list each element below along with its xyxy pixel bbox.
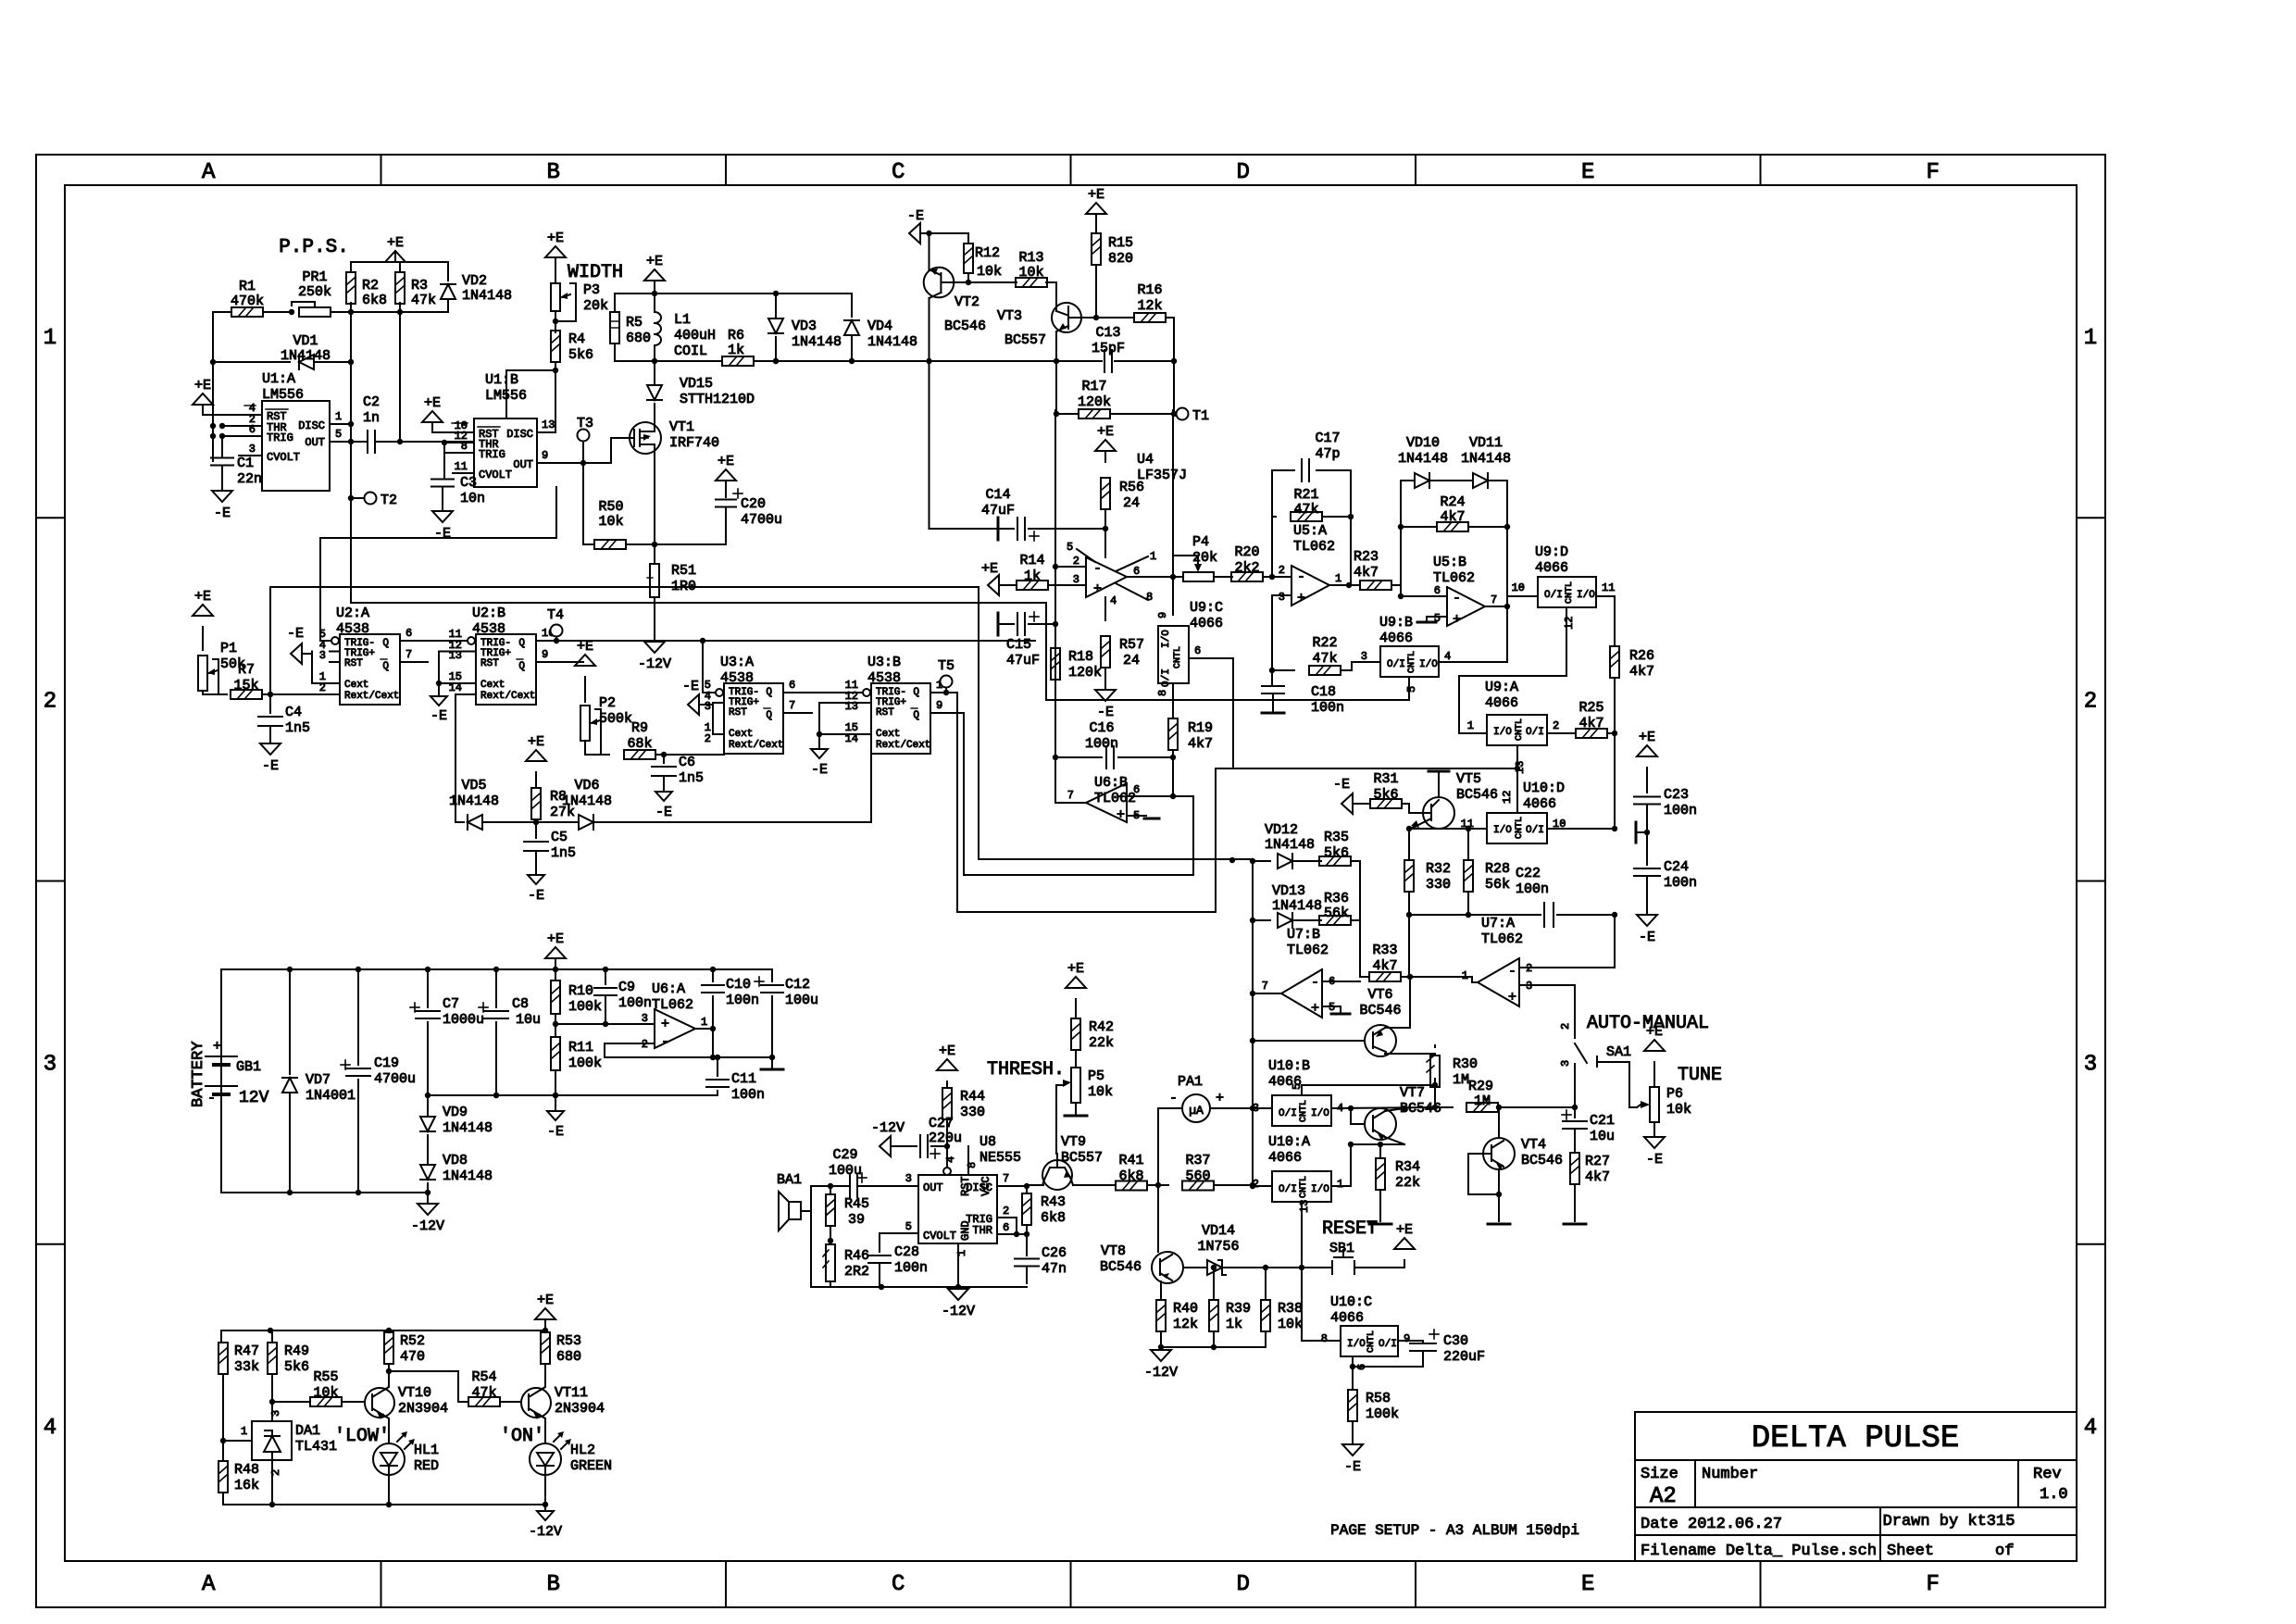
svg-text:22k: 22k bbox=[1395, 1175, 1420, 1191]
svg-text:10k: 10k bbox=[1088, 1084, 1113, 1100]
svg-text:VT4: VT4 bbox=[1521, 1137, 1546, 1153]
svg-text:R19: R19 bbox=[1188, 720, 1213, 736]
svg-text:R47: R47 bbox=[234, 1343, 259, 1359]
svg-text:VD4: VD4 bbox=[867, 319, 892, 334]
svg-text:4: 4 bbox=[44, 1416, 56, 1441]
svg-text:4066: 4066 bbox=[1523, 796, 1556, 812]
svg-text:DISC: DISC bbox=[506, 428, 533, 441]
svg-text:U1:A: U1:A bbox=[262, 371, 295, 387]
svg-text:7: 7 bbox=[1491, 593, 1497, 606]
svg-text:-E: -E bbox=[682, 679, 699, 694]
svg-text:R44: R44 bbox=[960, 1089, 985, 1105]
svg-text:R10: R10 bbox=[568, 983, 593, 999]
svg-text:1: 1 bbox=[241, 1425, 247, 1438]
svg-text:TL062: TL062 bbox=[652, 997, 693, 1013]
svg-text:4k7: 4k7 bbox=[1629, 664, 1654, 680]
svg-text:1N756: 1N756 bbox=[1197, 1239, 1239, 1255]
svg-text:RST: RST bbox=[480, 658, 499, 669]
svg-text:5k6: 5k6 bbox=[1324, 845, 1349, 861]
svg-text:U5:A: U5:A bbox=[1293, 523, 1327, 539]
svg-text:1: 1 bbox=[1467, 719, 1474, 732]
svg-text:VT1: VT1 bbox=[669, 419, 694, 435]
svg-text:2: 2 bbox=[2084, 689, 2097, 714]
svg-text:R37: R37 bbox=[1185, 1153, 1210, 1168]
svg-text:-12V: -12V bbox=[1144, 1365, 1178, 1380]
svg-text:C: C bbox=[892, 1572, 905, 1597]
svg-text:20k: 20k bbox=[583, 298, 608, 314]
svg-text:-12V: -12V bbox=[942, 1304, 975, 1319]
svg-text:R42: R42 bbox=[1089, 1019, 1114, 1035]
svg-text:1N4148: 1N4148 bbox=[867, 334, 917, 350]
svg-text:1k: 1k bbox=[1226, 1317, 1242, 1332]
svg-text:-: - bbox=[1453, 591, 1461, 606]
svg-text:+E: +E bbox=[1097, 424, 1114, 440]
svg-text:Sheet: Sheet bbox=[1887, 1543, 1934, 1560]
svg-text:68k: 68k bbox=[627, 736, 652, 752]
svg-text:120k: 120k bbox=[1068, 665, 1102, 681]
svg-text:R1: R1 bbox=[239, 279, 256, 294]
svg-text:15pF: 15pF bbox=[1092, 341, 1125, 356]
svg-text:I/O: I/O bbox=[1577, 590, 1595, 601]
svg-text:O/I: O/I bbox=[1379, 1339, 1397, 1350]
svg-text:1N4001: 1N4001 bbox=[306, 1088, 356, 1104]
svg-text:5k6: 5k6 bbox=[284, 1359, 309, 1375]
svg-text:BC546: BC546 bbox=[1100, 1259, 1142, 1275]
svg-text:VT9: VT9 bbox=[1061, 1134, 1086, 1150]
svg-text:I/O: I/O bbox=[1161, 630, 1172, 648]
svg-text:I/O: I/O bbox=[1493, 727, 1512, 738]
svg-text:2N3904: 2N3904 bbox=[398, 1401, 448, 1417]
svg-text:100u: 100u bbox=[829, 1163, 862, 1179]
svg-text:R48: R48 bbox=[234, 1462, 259, 1478]
svg-text:1n5: 1n5 bbox=[551, 845, 576, 861]
svg-text:U9:A: U9:A bbox=[1485, 680, 1518, 695]
svg-text:Date 2012.06.27: Date 2012.06.27 bbox=[1641, 1516, 1782, 1533]
svg-text:GB1: GB1 bbox=[236, 1059, 261, 1075]
svg-text:-E: -E bbox=[262, 758, 279, 774]
svg-text:3: 3 bbox=[269, 1410, 282, 1417]
svg-text:1N4148: 1N4148 bbox=[1398, 451, 1448, 467]
svg-text:4066: 4066 bbox=[1268, 1074, 1302, 1090]
svg-text:R22: R22 bbox=[1312, 635, 1337, 651]
svg-text:CNTL: CNTL bbox=[1565, 581, 1575, 604]
svg-text:Q: Q bbox=[518, 638, 525, 649]
svg-text:VT6: VT6 bbox=[1367, 987, 1392, 1003]
svg-text:Cext: Cext bbox=[344, 680, 368, 691]
svg-text:U4: U4 bbox=[1137, 452, 1154, 468]
svg-text:100n: 100n bbox=[894, 1260, 928, 1276]
svg-text:12: 12 bbox=[1563, 617, 1576, 630]
svg-text:4538: 4538 bbox=[336, 621, 369, 637]
svg-text:Q: Q bbox=[382, 638, 389, 649]
svg-text:6k8: 6k8 bbox=[362, 293, 387, 308]
svg-text:R23: R23 bbox=[1354, 549, 1379, 565]
svg-text:+E: +E bbox=[424, 395, 441, 411]
svg-text:20k: 20k bbox=[1192, 550, 1217, 566]
svg-text:T1: T1 bbox=[1192, 408, 1209, 424]
svg-text:1k: 1k bbox=[728, 343, 744, 358]
svg-text:1.0: 1.0 bbox=[2040, 1486, 2068, 1504]
svg-text:-E: -E bbox=[655, 805, 672, 820]
svg-text:-: - bbox=[661, 1034, 669, 1050]
svg-text:VD8: VD8 bbox=[443, 1153, 468, 1168]
svg-text:47p: 47p bbox=[1315, 446, 1340, 462]
svg-text:+E: +E bbox=[577, 639, 593, 655]
svg-text:NE555: NE555 bbox=[980, 1150, 1021, 1166]
svg-text:+E: +E bbox=[981, 561, 998, 577]
svg-text:4066: 4066 bbox=[1485, 695, 1518, 711]
svg-text:CVOLT: CVOLT bbox=[923, 1230, 956, 1243]
svg-text:820: 820 bbox=[1108, 251, 1133, 267]
svg-text:R18: R18 bbox=[1068, 649, 1093, 665]
svg-text:1N4148: 1N4148 bbox=[792, 334, 842, 350]
svg-text:Q: Q bbox=[766, 687, 772, 698]
svg-text:-E: -E bbox=[1097, 705, 1114, 720]
svg-text:10n: 10n bbox=[460, 491, 485, 506]
svg-text:BC546: BC546 bbox=[1521, 1153, 1563, 1168]
svg-text:VT5: VT5 bbox=[1456, 771, 1481, 787]
svg-text:1N4148: 1N4148 bbox=[1461, 451, 1511, 467]
svg-text:VD6: VD6 bbox=[574, 778, 599, 793]
svg-text:A2: A2 bbox=[1650, 1484, 1677, 1509]
svg-text:+E: +E bbox=[1396, 1222, 1413, 1238]
svg-text:DELTA PULSE: DELTA PULSE bbox=[1752, 1421, 1959, 1456]
svg-text:R26: R26 bbox=[1629, 648, 1654, 664]
svg-text:CNTL: CNTL bbox=[1407, 651, 1417, 673]
svg-text:VT8: VT8 bbox=[1101, 1243, 1126, 1259]
svg-text:47k: 47k bbox=[411, 293, 436, 308]
svg-text:+E: +E bbox=[194, 589, 211, 605]
svg-text:VD14: VD14 bbox=[1202, 1223, 1235, 1239]
svg-text:4066: 4066 bbox=[1190, 616, 1223, 631]
svg-text:1n: 1n bbox=[363, 410, 380, 426]
svg-text:C2: C2 bbox=[363, 394, 380, 410]
svg-text:P1: P1 bbox=[220, 641, 237, 656]
svg-text:R21: R21 bbox=[1293, 487, 1318, 503]
svg-text:11: 11 bbox=[455, 460, 468, 473]
svg-text:T4: T4 bbox=[547, 607, 564, 623]
svg-text:R28: R28 bbox=[1485, 861, 1510, 877]
svg-text:P5: P5 bbox=[1088, 1068, 1104, 1084]
svg-text:+: + bbox=[1508, 990, 1516, 1006]
svg-text:DISC: DISC bbox=[298, 419, 325, 432]
svg-text:THRESH.: THRESH. bbox=[987, 1059, 1065, 1081]
svg-text:VD3: VD3 bbox=[792, 319, 817, 334]
svg-text:TRIG: TRIG bbox=[479, 448, 505, 461]
svg-text:Rext/Cext: Rext/Cext bbox=[480, 691, 535, 702]
svg-text:R43: R43 bbox=[1041, 1194, 1066, 1210]
svg-text:2: 2 bbox=[1073, 555, 1079, 568]
svg-text:R20: R20 bbox=[1234, 544, 1259, 560]
svg-text:400uH: 400uH bbox=[674, 328, 716, 344]
svg-text:C4: C4 bbox=[285, 705, 302, 720]
svg-text:U6:A: U6:A bbox=[652, 981, 685, 997]
svg-text:O/I: O/I bbox=[1526, 727, 1544, 738]
svg-text:U7:A: U7:A bbox=[1481, 916, 1515, 931]
svg-text:5: 5 bbox=[1067, 541, 1073, 554]
svg-text:13: 13 bbox=[1298, 1200, 1311, 1213]
svg-text:O/I: O/I bbox=[1161, 668, 1172, 687]
svg-text:1N4148: 1N4148 bbox=[443, 1120, 493, 1136]
svg-text:1N4148: 1N4148 bbox=[1272, 898, 1322, 914]
svg-text:560: 560 bbox=[1185, 1168, 1210, 1184]
svg-text:4k7: 4k7 bbox=[1354, 565, 1379, 581]
svg-text:VT11: VT11 bbox=[555, 1385, 588, 1401]
svg-text:R11: R11 bbox=[568, 1040, 593, 1056]
svg-text:R4: R4 bbox=[568, 331, 585, 347]
svg-text:1: 1 bbox=[955, 1250, 968, 1256]
svg-text:1N4148: 1N4148 bbox=[462, 288, 512, 304]
svg-text:C10: C10 bbox=[726, 977, 751, 993]
svg-text:I/O: I/O bbox=[1493, 825, 1512, 836]
svg-text:C1: C1 bbox=[237, 456, 254, 471]
svg-text:+E: +E bbox=[194, 378, 211, 394]
svg-text:470: 470 bbox=[400, 1349, 425, 1365]
svg-text:Rext/Cext: Rext/Cext bbox=[344, 691, 399, 702]
svg-text:R45: R45 bbox=[844, 1196, 869, 1212]
svg-text:Cext: Cext bbox=[729, 729, 753, 740]
svg-text:4538: 4538 bbox=[720, 670, 754, 686]
svg-text:R40: R40 bbox=[1173, 1301, 1198, 1317]
svg-text:8: 8 bbox=[1146, 591, 1153, 604]
svg-text:R55: R55 bbox=[313, 1369, 338, 1385]
svg-text:2: 2 bbox=[1003, 1205, 1009, 1218]
svg-text:1k: 1k bbox=[1024, 568, 1041, 584]
svg-text:4066: 4066 bbox=[1535, 560, 1568, 576]
svg-text:2: 2 bbox=[269, 1469, 282, 1476]
svg-text:C28: C28 bbox=[894, 1244, 919, 1260]
svg-text:CNTL: CNTL bbox=[1173, 646, 1183, 668]
svg-text:Number: Number bbox=[1702, 1466, 1758, 1483]
svg-text:B: B bbox=[547, 1572, 560, 1597]
svg-text:+E: +E bbox=[1646, 1024, 1663, 1040]
svg-text:U1:B: U1:B bbox=[485, 372, 518, 388]
svg-text:R3: R3 bbox=[411, 278, 428, 294]
svg-text:Drawn by kt315: Drawn by kt315 bbox=[1883, 1513, 2015, 1530]
svg-text:47n: 47n bbox=[1042, 1261, 1067, 1277]
svg-text:-E: -E bbox=[528, 888, 544, 904]
svg-text:B: B bbox=[547, 160, 560, 185]
svg-text:OUT: OUT bbox=[305, 436, 325, 449]
svg-text:CNTL: CNTL bbox=[1366, 1330, 1377, 1353]
svg-text:1N4148: 1N4148 bbox=[1265, 837, 1315, 853]
svg-text:HL2: HL2 bbox=[570, 1443, 595, 1458]
svg-text:TL062: TL062 bbox=[1293, 539, 1335, 555]
svg-text:100n: 100n bbox=[1664, 803, 1697, 818]
svg-text:R53: R53 bbox=[556, 1333, 581, 1349]
svg-text:6: 6 bbox=[1133, 565, 1140, 578]
svg-text:12k: 12k bbox=[1173, 1317, 1198, 1332]
svg-text:6: 6 bbox=[789, 679, 795, 692]
svg-text:of: of bbox=[1995, 1543, 2014, 1560]
svg-text:-: - bbox=[207, 1091, 216, 1106]
svg-text:Rext/Cext: Rext/Cext bbox=[729, 740, 783, 751]
svg-text:U10:B: U10:B bbox=[1268, 1058, 1310, 1074]
svg-text:3: 3 bbox=[1279, 591, 1285, 604]
svg-text:R52: R52 bbox=[400, 1333, 425, 1349]
svg-text:470k: 470k bbox=[231, 294, 264, 309]
svg-text:330: 330 bbox=[960, 1105, 985, 1120]
svg-text:C17: C17 bbox=[1315, 431, 1340, 446]
svg-text:RED: RED bbox=[414, 1458, 439, 1474]
svg-text:1: 1 bbox=[335, 410, 342, 423]
svg-text:-: - bbox=[1169, 1091, 1178, 1106]
svg-text:4: 4 bbox=[944, 1156, 957, 1163]
svg-text:R2: R2 bbox=[362, 278, 379, 294]
svg-text:Q: Q bbox=[382, 661, 389, 672]
svg-text:250k: 250k bbox=[298, 284, 331, 300]
svg-text:+E: +E bbox=[547, 931, 564, 947]
svg-text:33k: 33k bbox=[234, 1359, 259, 1375]
svg-text:Q: Q bbox=[766, 710, 772, 721]
svg-text:3: 3 bbox=[249, 443, 256, 456]
svg-text:3: 3 bbox=[1559, 1060, 1572, 1067]
svg-text:E: E bbox=[1581, 1572, 1594, 1597]
svg-text:4k7: 4k7 bbox=[1188, 736, 1213, 752]
svg-text:4538: 4538 bbox=[867, 670, 901, 686]
svg-text:A: A bbox=[202, 1572, 216, 1597]
svg-text:4k7: 4k7 bbox=[1372, 958, 1397, 974]
svg-text:9: 9 bbox=[542, 648, 548, 661]
svg-text:'LOW': 'LOW' bbox=[334, 1426, 390, 1447]
svg-text:SA1: SA1 bbox=[1606, 1044, 1631, 1060]
svg-text:9: 9 bbox=[936, 699, 942, 712]
svg-text:U10:C: U10:C bbox=[1330, 1294, 1372, 1310]
svg-text:100k: 100k bbox=[568, 1056, 602, 1071]
svg-text:OUT: OUT bbox=[923, 1181, 943, 1194]
svg-text:12V: 12V bbox=[239, 1089, 269, 1107]
svg-text:R32: R32 bbox=[1426, 861, 1451, 877]
svg-text:O/I: O/I bbox=[1387, 659, 1405, 670]
svg-text:BC546: BC546 bbox=[1456, 787, 1498, 803]
svg-text:-: - bbox=[1508, 964, 1516, 980]
svg-text:1N4148: 1N4148 bbox=[281, 348, 331, 364]
svg-text:1n5: 1n5 bbox=[285, 720, 310, 736]
svg-text:R34: R34 bbox=[1395, 1159, 1420, 1175]
svg-text:C16: C16 bbox=[1089, 720, 1114, 736]
svg-text:R54: R54 bbox=[471, 1369, 496, 1385]
svg-text:P4: P4 bbox=[1192, 534, 1209, 550]
svg-text:3: 3 bbox=[319, 649, 326, 662]
svg-text:LM556: LM556 bbox=[262, 387, 304, 403]
svg-text:C8: C8 bbox=[512, 996, 529, 1012]
svg-text:P.P.S.: P.P.S. bbox=[279, 237, 349, 258]
svg-text:10k: 10k bbox=[1278, 1317, 1303, 1332]
svg-text:VT3: VT3 bbox=[997, 308, 1022, 324]
svg-text:R39: R39 bbox=[1226, 1301, 1251, 1317]
svg-text:U3:A: U3:A bbox=[720, 655, 754, 670]
svg-text:+E: +E bbox=[717, 454, 734, 469]
svg-text:C13: C13 bbox=[1095, 325, 1120, 341]
svg-text:+: + bbox=[1216, 1091, 1224, 1106]
svg-text:5: 5 bbox=[335, 428, 342, 441]
svg-text:24: 24 bbox=[1123, 653, 1140, 668]
svg-text:C9: C9 bbox=[618, 980, 635, 995]
svg-text:C29: C29 bbox=[832, 1147, 857, 1163]
svg-text:+E: +E bbox=[547, 231, 564, 246]
svg-text:2: 2 bbox=[705, 732, 711, 745]
svg-text:7: 7 bbox=[789, 699, 795, 712]
svg-text:24: 24 bbox=[1123, 495, 1140, 511]
svg-text:R30: R30 bbox=[1453, 1056, 1478, 1072]
svg-text:R41: R41 bbox=[1118, 1153, 1143, 1168]
svg-text:10k: 10k bbox=[598, 514, 623, 530]
svg-text:P6: P6 bbox=[1666, 1086, 1683, 1102]
svg-text:3: 3 bbox=[2084, 1053, 2097, 1078]
svg-text:+E: +E bbox=[537, 1293, 554, 1308]
svg-text:5: 5 bbox=[1405, 686, 1418, 693]
svg-text:1M: 1M bbox=[1474, 1093, 1491, 1109]
svg-text:C22: C22 bbox=[1516, 866, 1541, 881]
svg-text:VD7: VD7 bbox=[306, 1072, 331, 1088]
svg-text:5k6: 5k6 bbox=[568, 347, 593, 363]
svg-text:1: 1 bbox=[1335, 572, 1341, 585]
svg-text:RESET: RESET bbox=[1322, 1218, 1378, 1240]
svg-text:R17: R17 bbox=[1081, 379, 1106, 394]
svg-text:C: C bbox=[892, 160, 905, 185]
svg-text:BC557: BC557 bbox=[1004, 332, 1046, 348]
svg-text:8: 8 bbox=[1321, 1332, 1328, 1345]
svg-text:VD11: VD11 bbox=[1469, 435, 1503, 451]
svg-text:T3: T3 bbox=[577, 416, 593, 431]
svg-text:C27: C27 bbox=[929, 1116, 954, 1131]
svg-text:3: 3 bbox=[642, 1012, 648, 1025]
svg-text:O/I: O/I bbox=[1526, 825, 1544, 836]
svg-text:D: D bbox=[1237, 1572, 1250, 1597]
svg-text:A: A bbox=[202, 160, 216, 185]
svg-text:'ON': 'ON' bbox=[500, 1426, 544, 1447]
svg-text:Q: Q bbox=[518, 661, 525, 672]
svg-text:-12V: -12V bbox=[411, 1218, 444, 1234]
svg-text:8: 8 bbox=[966, 1162, 979, 1168]
svg-text:-E: -E bbox=[214, 506, 231, 521]
svg-text:R46: R46 bbox=[844, 1248, 869, 1264]
svg-text:VD9: VD9 bbox=[443, 1105, 468, 1120]
svg-text:330: 330 bbox=[1426, 877, 1451, 893]
svg-text:C11: C11 bbox=[731, 1071, 756, 1087]
svg-text:HL1: HL1 bbox=[414, 1443, 439, 1458]
svg-text:+: + bbox=[213, 1039, 221, 1055]
svg-text:T5: T5 bbox=[938, 658, 955, 674]
svg-text:47uF: 47uF bbox=[981, 503, 1015, 518]
svg-text:9: 9 bbox=[1156, 612, 1169, 618]
svg-text:Filename Delta_ Pulse.sch: Filename Delta_ Pulse.sch bbox=[1641, 1543, 1877, 1560]
svg-text:Cext: Cext bbox=[480, 680, 505, 691]
svg-text:I/O: I/O bbox=[1311, 1184, 1329, 1195]
svg-text:-E: -E bbox=[1344, 1459, 1361, 1475]
svg-text:U10:A: U10:A bbox=[1268, 1134, 1310, 1150]
svg-text:12: 12 bbox=[1501, 791, 1514, 804]
svg-text:11: 11 bbox=[1602, 581, 1615, 594]
svg-text:GREEN: GREEN bbox=[570, 1458, 612, 1474]
svg-text:COIL: COIL bbox=[674, 344, 707, 359]
svg-text:1000u: 1000u bbox=[443, 1012, 484, 1028]
svg-text:-E: -E bbox=[547, 1124, 564, 1140]
svg-text:U6:B: U6:B bbox=[1094, 775, 1128, 791]
svg-text:R49: R49 bbox=[284, 1343, 309, 1359]
svg-text:8: 8 bbox=[461, 440, 468, 453]
svg-text:4066: 4066 bbox=[1379, 631, 1413, 646]
svg-text:CVOLT: CVOLT bbox=[479, 468, 512, 481]
svg-text:+E: +E bbox=[1639, 730, 1655, 745]
svg-text:O/I: O/I bbox=[1544, 590, 1563, 601]
svg-text:100n: 100n bbox=[1085, 736, 1118, 752]
svg-text:U7:B: U7:B bbox=[1287, 927, 1320, 943]
svg-text:2: 2 bbox=[1279, 564, 1285, 577]
svg-text:3: 3 bbox=[1073, 573, 1079, 586]
svg-text:-E: -E bbox=[811, 762, 828, 778]
svg-text:680: 680 bbox=[626, 331, 651, 346]
